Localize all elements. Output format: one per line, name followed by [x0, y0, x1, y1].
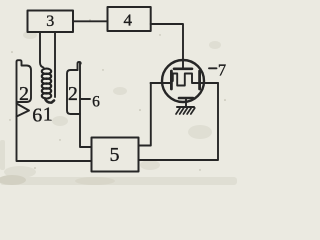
svg-text:4: 4 [124, 11, 133, 30]
svg-text:7: 7 [218, 60, 226, 79]
svg-text:2: 2 [19, 83, 29, 105]
svg-text:1: 1 [43, 104, 53, 126]
svg-text:6: 6 [32, 105, 42, 127]
svg-text:3: 3 [46, 13, 54, 30]
svg-text:5: 5 [110, 144, 120, 166]
svg-text:2: 2 [68, 83, 78, 105]
svg-text:6: 6 [92, 94, 100, 111]
